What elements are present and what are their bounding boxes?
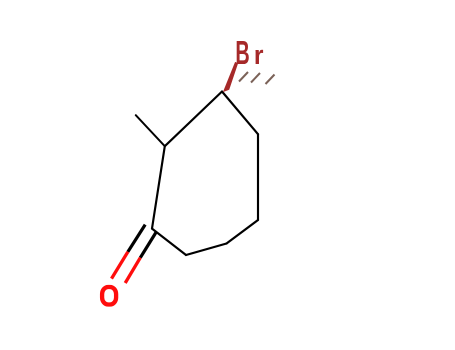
ring skeleton bonds: [152, 92, 258, 256]
carbonyl double bond C1=O red halves: [112, 252, 141, 283]
label O: [102, 287, 116, 305]
svg-text:B: B: [235, 35, 249, 72]
svg-text:r: r: [254, 40, 264, 70]
bond VR1-VR2: [257, 134, 259, 220]
bond VB1-VB2: [186, 244, 227, 256]
bond VL-VUL: [136, 115, 165, 146]
carbonyl double bond C1=O black halves: [128, 225, 156, 258]
bond V1-VR1: [222, 92, 258, 135]
three hash dashes: [239, 72, 275, 84]
bond VR2-VB1: [227, 220, 259, 244]
bond V1-Br maroon: [223, 62, 238, 92]
bond VB2-C1: [152, 229, 186, 255]
bond C1-VL: [152, 146, 165, 228]
bond VL-V1: [165, 92, 222, 147]
